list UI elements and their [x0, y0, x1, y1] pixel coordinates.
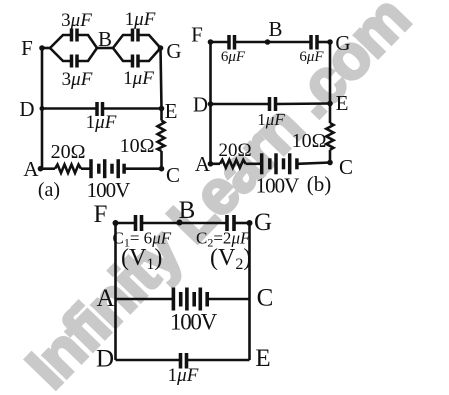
node A (b)	[208, 161, 214, 167]
wire: cap to E (bottom)	[188, 359, 250, 362]
capacitor C2 plates	[225, 215, 229, 231]
svg-text:10Ω: 10Ω	[120, 135, 155, 157]
wire: right rail G-E	[161, 48, 162, 109]
wire: F to cap1 (b)	[211, 41, 229, 44]
svg-text:F: F	[191, 23, 203, 47]
svg-text:D: D	[19, 97, 34, 121]
wire: left rail F-D-A	[41, 48, 44, 169]
svg-text:3μF: 3μF	[62, 69, 93, 90]
svg-text:6μF: 6μF	[221, 49, 246, 65]
wire: hex1 bottom branch left	[50, 48, 71, 61]
wire: E to resistor (b)	[329, 104, 332, 124]
node F (bottom)	[113, 220, 119, 226]
node B (b)	[265, 39, 271, 45]
node G (b)	[327, 39, 333, 45]
svg-text:20Ω: 20Ω	[218, 140, 251, 161]
svg-text:E: E	[165, 99, 178, 123]
wire: hex2 bottom branch right	[139, 48, 161, 61]
wire: cap C2 to G	[235, 222, 250, 225]
wire: battery to C	[125, 167, 162, 170]
capacitor C1 plates	[134, 215, 138, 231]
node E (b)	[327, 101, 333, 107]
wire: F to cap C1	[116, 222, 135, 225]
wire: hex2 top branch right	[139, 35, 161, 48]
wire: B to cap2 (b)	[268, 41, 311, 44]
wire: resistor to C	[160, 151, 163, 169]
svg-text:D: D	[96, 346, 114, 373]
wire: right rail G-E (b)	[329, 42, 332, 104]
wire: D-E right segment	[104, 107, 162, 110]
wire: left rail F-D-A (b)	[209, 42, 212, 164]
node G (a)	[158, 45, 164, 51]
svg-text:A: A	[23, 157, 39, 181]
wire: left rail F-A-D	[114, 223, 117, 360]
svg-text:10Ω: 10Ω	[292, 130, 327, 152]
node F (b)	[208, 39, 214, 45]
wire: hex2 top branch left	[113, 35, 132, 48]
capacitor 6uF right (b) plates	[309, 35, 313, 50]
svg-text:1μF: 1μF	[123, 68, 154, 89]
svg-text:F: F	[21, 36, 33, 60]
battery 100V (bottom) plates	[172, 288, 176, 311]
resistor 10 ohm (a)	[158, 121, 165, 152]
wire: hex1 top branch left	[50, 35, 71, 48]
svg-text:(b): (b)	[307, 172, 332, 196]
wire: hex2 bottom branch left	[113, 48, 132, 61]
wire: D to cap (b)	[211, 103, 270, 106]
resistor 10 ohm (b)	[326, 123, 333, 150]
svg-text:E: E	[336, 91, 349, 115]
capacitor 1uF (b) plates	[268, 97, 272, 111]
node D (a)	[40, 106, 45, 111]
svg-text:1μF: 1μF	[168, 365, 199, 386]
svg-text:1μF: 1μF	[257, 110, 285, 129]
svg-text:A: A	[195, 152, 211, 176]
wire: hex1 bottom branch right	[78, 48, 97, 61]
svg-text:F: F	[94, 201, 108, 228]
wire: resistor to C (b)	[329, 150, 332, 163]
wire: A to resistor 20 (b)	[211, 163, 221, 166]
capacitor 1uF (bottom) plates	[179, 353, 183, 369]
svg-text:C: C	[339, 155, 353, 179]
node E (a)	[159, 106, 165, 112]
svg-text:100V: 100V	[87, 178, 131, 202]
battery 100V (a) plates	[89, 159, 93, 178]
wire: cap1 to B (b)	[236, 41, 268, 44]
wire: battery to C (b)	[298, 163, 330, 164]
svg-text:100V: 100V	[170, 310, 218, 335]
wire: D-E left segment	[42, 107, 96, 110]
svg-text:B: B	[98, 27, 112, 51]
capacitor 1uF (middle a) plates	[95, 102, 99, 116]
svg-text:E: E	[255, 345, 270, 372]
wire: hex1 top branch right	[78, 35, 97, 48]
svg-text:20Ω: 20Ω	[51, 141, 86, 163]
svg-text:6μF: 6μF	[299, 49, 324, 65]
wire: D to cap (bottom)	[116, 359, 180, 362]
node G (bottom)	[247, 220, 253, 226]
svg-text:G: G	[335, 31, 350, 55]
svg-text:D: D	[193, 93, 208, 117]
svg-text:(a): (a)	[38, 179, 60, 201]
svg-text:1μF: 1μF	[86, 112, 117, 133]
capacitor 6uF left (b) plates	[227, 35, 231, 50]
resistor 20 ohm (b)	[220, 160, 246, 168]
node C (a)	[159, 166, 165, 172]
wire: right rail G-C-E	[248, 223, 251, 360]
wire: resistor to battery (b)	[246, 163, 261, 166]
wire: node B link between hexagons	[97, 47, 113, 50]
capacitor 3uF (bottom) plates	[70, 55, 74, 68]
svg-text:C: C	[166, 163, 180, 187]
svg-text:G: G	[166, 39, 181, 63]
node F (a)	[39, 45, 45, 51]
capacitor 1uF (top) plates	[131, 29, 135, 42]
wire: E to resistor	[160, 109, 163, 121]
battery 100V (b) plates	[260, 153, 264, 174]
capacitor 1uF (bottom) plates	[131, 55, 135, 68]
wire: cap C1 to B	[143, 222, 180, 225]
node D (b)	[208, 101, 214, 107]
svg-text:1μF: 1μF	[125, 9, 156, 30]
svg-text:Infinity Learn .com: Infinity Learn .com	[14, 0, 423, 395]
wire: F to hexagon split	[42, 47, 50, 50]
svg-text:C: C	[257, 285, 274, 312]
svg-text:(V2): (V2)	[210, 245, 251, 273]
wire: cap to E (b)	[277, 102, 331, 105]
node B (bottom)	[177, 220, 183, 226]
svg-text:A: A	[96, 285, 114, 312]
capacitor 3uF (top) plates	[70, 29, 74, 42]
wire: B to cap C2	[180, 222, 227, 225]
svg-text:B: B	[179, 197, 196, 224]
wire: cap2 to G (b)	[318, 41, 330, 44]
resistor 20 ohm (a)	[55, 165, 81, 174]
wire: resistor to battery	[81, 167, 90, 170]
svg-text:100V: 100V	[256, 174, 300, 198]
svg-text:B: B	[268, 17, 282, 41]
node A (a)	[38, 166, 44, 172]
wire: battery to C (bottom)	[209, 298, 250, 301]
svg-text:G: G	[254, 209, 272, 236]
svg-text:(V1): (V1)	[121, 245, 162, 273]
svg-text:3μF: 3μF	[61, 10, 92, 31]
wire: A to battery	[116, 298, 173, 301]
node C (b)	[327, 160, 333, 166]
wire: A to resistor 20	[41, 167, 56, 170]
